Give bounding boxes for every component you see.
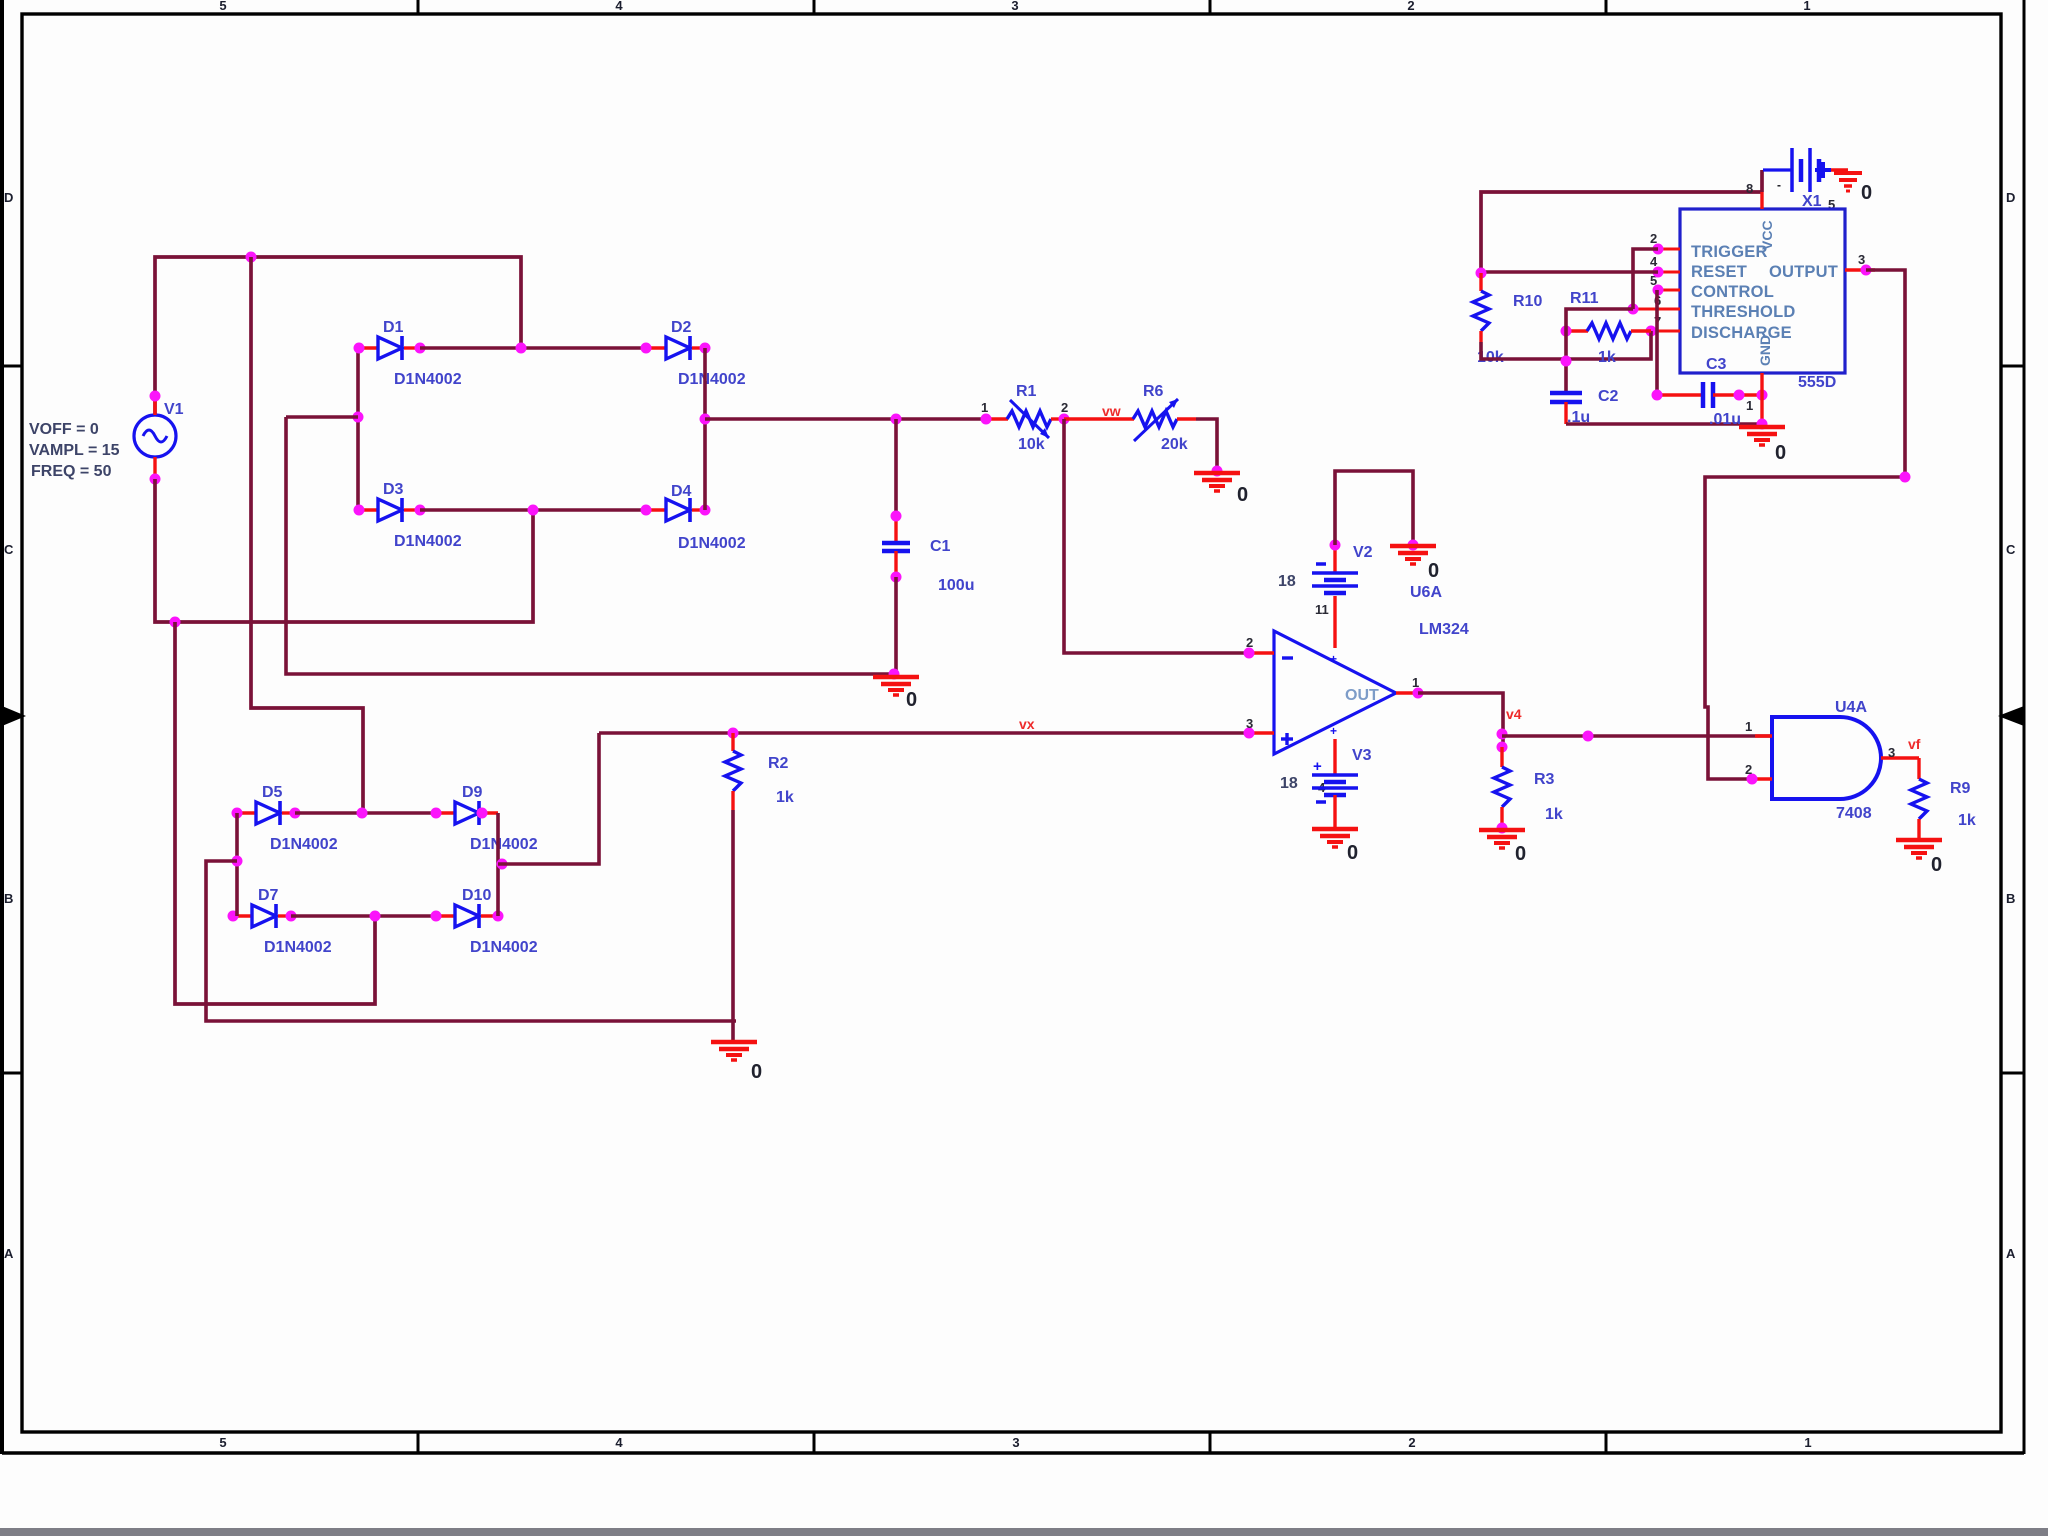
svg-text:VAMPL = 15: VAMPL = 15 xyxy=(29,442,120,459)
junction dot output corner xyxy=(1900,472,1911,483)
svg-text:-: - xyxy=(1777,178,1781,192)
wire: rectifier output rail to R1 xyxy=(705,417,986,421)
svg-text:2: 2 xyxy=(1246,635,1253,650)
wire: C2 bottom to 555 ground xyxy=(1566,422,1762,426)
svg-text:100u: 100u xyxy=(938,577,974,594)
svg-text:11: 11 xyxy=(1315,602,1329,617)
svg-text:OUT: OUT xyxy=(1345,687,1379,704)
svg-text:2: 2 xyxy=(1745,762,1752,777)
svg-text:FREQ = 50: FREQ = 50 xyxy=(31,463,112,480)
svg-text:2: 2 xyxy=(1061,400,1068,415)
svg-text:+: + xyxy=(1330,724,1337,738)
svg-text:D1N4002: D1N4002 xyxy=(470,939,538,956)
svg-text:A: A xyxy=(2006,1246,2016,1261)
diode D1 xyxy=(358,336,420,360)
battery V3 xyxy=(1312,758,1358,827)
svg-text:R1: R1 xyxy=(1016,383,1037,400)
ground 0 at 555 xyxy=(1739,427,1785,445)
wire: op-amp out to v4 node xyxy=(1418,693,1503,751)
svg-text:U4A: U4A xyxy=(1835,699,1867,716)
zone letters left xyxy=(4,190,14,1261)
junction dots v4 node xyxy=(1497,729,1508,753)
ground 0 at X1 xyxy=(1834,173,1862,191)
R11 pin dot xyxy=(1561,326,1572,337)
wire: C1 top connection xyxy=(894,419,898,516)
D5 pin dots xyxy=(232,808,301,819)
border zone ticks top xyxy=(418,0,1606,14)
wire: D7 cathode to D10 anode xyxy=(291,914,436,918)
wire: VCC rail up to battery xyxy=(1760,170,1764,192)
svg-text:D1N4002: D1N4002 xyxy=(270,836,338,853)
junction dot on bottom rail xyxy=(170,617,181,628)
wire: R6 to ground xyxy=(1196,419,1217,471)
V2 top pin dot xyxy=(1330,540,1341,551)
svg-text:U6A: U6A xyxy=(1410,584,1442,601)
555 pin 8 VCC stub xyxy=(1760,192,1763,209)
svg-text:3: 3 xyxy=(1012,1435,1019,1450)
junction dot R6 ground xyxy=(1212,466,1223,477)
svg-text:D10: D10 xyxy=(462,887,491,904)
svg-text:4: 4 xyxy=(615,1435,623,1450)
ground 0 at C1 xyxy=(873,677,919,695)
D4 pin dots xyxy=(641,505,711,516)
wire: V2 plus to ground xyxy=(1335,471,1413,545)
ground 0 at R3 xyxy=(1479,830,1525,848)
variable resistor R1 xyxy=(986,400,1064,438)
svg-text:18: 18 xyxy=(1278,573,1296,590)
junction dot on v4 wire xyxy=(1583,731,1594,742)
svg-text:D1N4002: D1N4002 xyxy=(678,535,746,552)
junction dot cathode column xyxy=(700,414,711,425)
wire: D5 cathode to D9 anode xyxy=(295,811,436,815)
wire: control pin to C3 xyxy=(1655,290,1659,395)
svg-text:1: 1 xyxy=(1745,719,1752,734)
svg-text:C: C xyxy=(4,542,14,557)
svg-text:2: 2 xyxy=(1407,0,1414,13)
svg-text:3: 3 xyxy=(1888,745,1895,760)
AND gate U4A xyxy=(1752,717,1919,799)
svg-text:10k: 10k xyxy=(1018,436,1045,453)
svg-text:1k: 1k xyxy=(1598,349,1616,366)
svg-text:A: A xyxy=(4,1246,14,1261)
op-amp U6A triangle xyxy=(1247,596,1418,775)
border zone ticks bottom xyxy=(418,1432,1606,1453)
svg-text:DISCHARGE: DISCHARGE xyxy=(1691,324,1792,342)
svg-text:THRESHOLD: THRESHOLD xyxy=(1691,303,1795,321)
junction dot D7-D10 wire xyxy=(370,911,381,922)
wire: D5/D7 anode tie xyxy=(235,813,239,916)
svg-text:2: 2 xyxy=(1650,231,1657,246)
diode D2 xyxy=(646,336,705,360)
wire: reset to VCC rail xyxy=(1481,270,1658,274)
svg-text:20k: 20k xyxy=(1161,436,1188,453)
svg-text:R10: R10 xyxy=(1513,293,1542,310)
op-amp output pin dot xyxy=(1413,688,1424,699)
svg-text:TRIGGER: TRIGGER xyxy=(1691,243,1768,261)
svg-text:vx: vx xyxy=(1019,716,1035,732)
svg-text:RESET: RESET xyxy=(1691,263,1747,281)
svg-text:R3: R3 xyxy=(1534,771,1555,788)
D2 pin dots xyxy=(641,343,711,354)
svg-text:B: B xyxy=(4,891,13,906)
svg-text:555D: 555D xyxy=(1798,374,1836,391)
svg-text:D: D xyxy=(2006,190,2015,205)
svg-text:D1N4002: D1N4002 xyxy=(394,533,462,550)
ground 0 at R6 xyxy=(1194,473,1240,491)
resistor R2 xyxy=(725,733,741,810)
svg-text:1: 1 xyxy=(981,400,988,415)
svg-text:0: 0 xyxy=(1237,484,1248,506)
svg-text:LM324: LM324 xyxy=(1419,621,1469,638)
border center marker left xyxy=(2,706,26,726)
svg-text:C2: C2 xyxy=(1598,388,1619,405)
AND pin 2 dot xyxy=(1747,774,1758,785)
svg-text:R6: R6 xyxy=(1143,383,1164,400)
wire: D3 cathode to D4 anode xyxy=(420,508,646,512)
svg-text:R11: R11 xyxy=(1570,290,1599,307)
svg-text:V3: V3 xyxy=(1352,747,1372,764)
wire: R10 bottom rail to discharge column xyxy=(1481,331,1651,359)
svg-text:B: B xyxy=(2006,891,2015,906)
svg-text:D1N4002: D1N4002 xyxy=(394,371,462,388)
resistor R3 xyxy=(1494,747,1510,828)
zone numbers bottom xyxy=(219,1435,1811,1450)
555 pin dots left xyxy=(1628,244,1664,337)
capacitor C2 xyxy=(1550,393,1582,424)
svg-text:D1N4002: D1N4002 xyxy=(678,371,746,388)
variable resistor R6 xyxy=(1133,399,1196,441)
ground 0 at V3 xyxy=(1312,829,1358,847)
svg-text:vf: vf xyxy=(1908,736,1921,752)
border zone ticks right xyxy=(2001,366,2024,1073)
border frame: outer bottom line xyxy=(2,1451,2024,1454)
svg-text:+: + xyxy=(1313,758,1322,775)
junction dot anode column xyxy=(353,412,364,423)
border zone ticks left xyxy=(2,366,22,1073)
junction dot at C1 tap xyxy=(891,414,902,425)
svg-text:OUTPUT: OUTPUT xyxy=(1769,263,1838,281)
ground 0 at R9 xyxy=(1896,840,1942,858)
junction dot D1-D2 wire xyxy=(516,343,527,354)
resistor R11 xyxy=(1566,323,1651,339)
zone numbers top xyxy=(219,0,1810,13)
555 timer X1 box xyxy=(1680,209,1845,373)
D9 pin dots xyxy=(431,808,488,819)
op-amp input pin dots xyxy=(1244,648,1255,739)
svg-text:+: + xyxy=(1330,652,1337,666)
junction dot D5-D9 wire xyxy=(357,808,368,819)
junction dot anode tie xyxy=(232,856,243,867)
svg-text:0: 0 xyxy=(1347,842,1358,864)
svg-text:D3: D3 xyxy=(383,481,404,498)
wire: V1 bottom to D3/D4 midpoint (bottom rail y=622) xyxy=(155,479,533,622)
wire: V1 top to D1/D2 midpoint (top rail y=257) xyxy=(155,257,521,415)
wire: vw node down to op-amp inverting input xyxy=(1064,419,1247,653)
svg-text:0: 0 xyxy=(1775,442,1786,464)
svg-text:D2: D2 xyxy=(671,319,692,336)
zone letters right xyxy=(2006,190,2016,1261)
wire: R1 to R6 xyxy=(1064,417,1134,420)
svg-text:D7: D7 xyxy=(258,887,279,904)
svg-text:3: 3 xyxy=(1246,716,1253,731)
D10 pin dots xyxy=(431,911,504,922)
battery X1 (5V) xyxy=(1763,148,1848,192)
wire: D1/D3 anode column xyxy=(356,348,360,510)
svg-text:V2: V2 xyxy=(1353,544,1373,561)
resistor R9 xyxy=(1911,779,1927,838)
junction dot C1 ground xyxy=(889,669,900,680)
svg-text:D1N4002: D1N4002 xyxy=(264,939,332,956)
border center marker right xyxy=(1998,706,2024,726)
junction dot R3 ground xyxy=(1497,823,1508,834)
wire: threshold column through R11 left xyxy=(1566,309,1633,393)
junction dot on top rail xyxy=(246,252,257,263)
svg-text:0: 0 xyxy=(1515,843,1526,865)
junction dot C2 top xyxy=(1561,356,1572,367)
wire: VCC rail top xyxy=(1481,192,1762,273)
svg-text:D: D xyxy=(4,190,13,205)
junction dot cathode tie xyxy=(497,859,508,870)
svg-text:1k: 1k xyxy=(1958,812,1976,829)
wire: D2/D4 cathode column xyxy=(703,348,707,510)
diode D4 xyxy=(646,498,705,522)
diode D9 xyxy=(436,801,498,825)
R1 pin dots xyxy=(981,414,1070,425)
junction dot V2 ground xyxy=(1408,540,1419,551)
diode D3 xyxy=(358,498,420,522)
svg-text:5: 5 xyxy=(219,0,226,13)
svg-text:C3: C3 xyxy=(1706,356,1727,373)
svg-text:R2: R2 xyxy=(768,755,789,772)
svg-text:.01u: .01u xyxy=(1709,411,1741,428)
svg-text:D9: D9 xyxy=(462,784,483,801)
wire: lower bridge output up to vx xyxy=(498,733,599,864)
svg-text:vw: vw xyxy=(1102,403,1121,419)
svg-text:1: 1 xyxy=(1804,1435,1811,1450)
svg-text:VOFF = 0: VOFF = 0 xyxy=(29,421,99,438)
diode D7 xyxy=(233,904,291,928)
junction dot 555 ground xyxy=(1757,419,1768,430)
capacitor C1 xyxy=(882,516,910,577)
D1 pin dots xyxy=(354,343,426,354)
svg-text:18: 18 xyxy=(1280,775,1298,792)
555 pin 3 OUTPUT stub xyxy=(1845,268,1875,271)
svg-text:0: 0 xyxy=(1428,560,1439,582)
svg-text:C1: C1 xyxy=(930,538,951,555)
svg-text:3: 3 xyxy=(1011,0,1018,13)
wire: R2 bottom to ground rail xyxy=(731,810,735,1041)
svg-text:C: C xyxy=(2006,542,2016,557)
wire: trigger tie to threshold xyxy=(1633,249,1658,309)
ground 0 at R2 xyxy=(711,1042,757,1060)
svg-text:D1N4002: D1N4002 xyxy=(470,836,538,853)
555 pin stubs left xyxy=(1633,249,1680,331)
V1 pin dots xyxy=(150,391,161,485)
svg-text:0: 0 xyxy=(1861,182,1872,204)
bottom gray strip xyxy=(0,1528,2048,1536)
svg-text:4: 4 xyxy=(615,0,623,13)
wire: ground line down and right to C1 ground xyxy=(286,417,896,674)
svg-text:D4: D4 xyxy=(671,483,692,500)
svg-text:R9: R9 xyxy=(1950,780,1971,797)
D7 pin dots xyxy=(228,911,297,922)
svg-text:1k: 1k xyxy=(1545,806,1563,823)
555 pin 1 GND stub xyxy=(1760,373,1763,424)
svg-text:v4: v4 xyxy=(1506,706,1522,722)
diode D5 xyxy=(237,801,295,825)
wire: vx feed from top rail down-left column xyxy=(251,257,363,813)
svg-text:0: 0 xyxy=(1931,854,1942,876)
svg-text:D1: D1 xyxy=(383,319,404,336)
junction dot D3-D4 wire xyxy=(528,505,539,516)
svg-text:0: 0 xyxy=(906,689,917,711)
svg-text:D5: D5 xyxy=(262,784,283,801)
border frame: outer right line xyxy=(2023,0,2026,1454)
svg-text:CONTROL: CONTROL xyxy=(1691,283,1774,301)
svg-text:3: 3 xyxy=(1858,252,1865,267)
D3 pin dots xyxy=(354,505,426,516)
resistor R10 xyxy=(1473,273,1489,342)
wire: bottom rail branch down to D7/D10 midpoint xyxy=(175,622,375,1004)
wire: anode column to ground column xyxy=(286,415,358,419)
svg-text:V1: V1 xyxy=(164,401,184,418)
555 output pin dot xyxy=(1861,265,1872,276)
svg-text:1: 1 xyxy=(1803,0,1810,13)
border frame: outer left line xyxy=(0,0,4,1454)
wire: C1 bottom to ground xyxy=(894,577,898,676)
wire: anode tie to ground rail xyxy=(206,861,736,1021)
svg-text:8: 8 xyxy=(1746,181,1753,196)
source V1 xyxy=(134,396,176,479)
svg-text:1k: 1k xyxy=(776,789,794,806)
wire: v4 to AND gate pin 1 xyxy=(1502,734,1772,738)
wire: AND output to R9 xyxy=(1917,758,1920,779)
svg-text:5: 5 xyxy=(219,1435,226,1450)
wire: vx to op-amp non-inverting input xyxy=(599,731,1247,735)
C1 pin dots xyxy=(891,511,902,583)
svg-text:7408: 7408 xyxy=(1836,805,1872,822)
capacitor C3 xyxy=(1657,382,1762,408)
svg-text:2: 2 xyxy=(1408,1435,1415,1450)
battery V2 xyxy=(1312,545,1358,593)
svg-text:1: 1 xyxy=(1746,398,1753,413)
wire: D1 cathode to D2 anode xyxy=(420,346,646,350)
wire: D9/D10 cathode tie xyxy=(496,813,500,916)
junction dot R10 top xyxy=(1476,268,1487,279)
svg-text:0: 0 xyxy=(751,1061,762,1083)
wire: 555 output down and left to AND gate pin 2 xyxy=(1705,270,1905,779)
diode D10 xyxy=(436,904,498,928)
ground 0 at V2 xyxy=(1390,546,1436,564)
C3 pin dots xyxy=(1652,390,1768,401)
junction dot R2 top xyxy=(728,728,739,739)
